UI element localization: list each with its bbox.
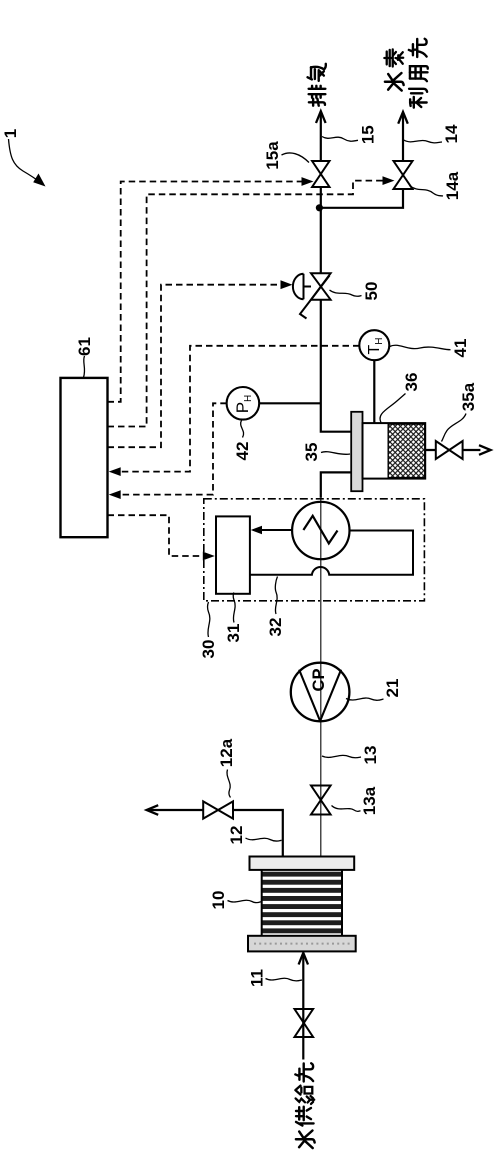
label 13: [361, 746, 380, 765]
leader 14a: [410, 186, 444, 197]
label 11: [248, 969, 267, 987]
wire temperature sensor probe: [373, 360, 375, 423]
arrow exhaust: [316, 111, 326, 123]
control valve 50 body: [311, 273, 331, 299]
svg-text:61: 61: [75, 337, 94, 356]
svg-text:41: 41: [451, 339, 470, 358]
temperature sensor 41: [359, 330, 389, 360]
controller 61: [61, 378, 108, 537]
leader 35a: [442, 414, 467, 442]
dashed enclosure 30: [204, 499, 425, 601]
leader 31: [233, 593, 235, 623]
wire tank drain line: [425, 449, 480, 451]
label 10: [209, 891, 228, 910]
wire main line through dryer and compressor (thin): [320, 498, 322, 857]
leader label 1: [9, 139, 42, 183]
leader 41: [390, 345, 451, 349]
valve 14a: [394, 161, 413, 189]
wire pressure sensor tap: [259, 402, 321, 404]
svg-text:35a: 35a: [459, 382, 478, 411]
signal controller to chiller 31: [108, 515, 204, 556]
leader 10: [228, 900, 262, 902]
signal arrowheads: [109, 176, 395, 560]
leader 14: [404, 140, 442, 143]
wire exhaust outlet line 15: [320, 113, 322, 162]
tank lid flange 35: [351, 412, 362, 491]
electrolysis stack 10 top plate: [250, 857, 355, 870]
svg-text:15: 15: [359, 125, 378, 144]
label 14: [442, 124, 461, 143]
svg-text:CP: CP: [310, 669, 328, 692]
leader 12a: [227, 770, 231, 798]
electrolysis stack 10 bottom plate: [248, 936, 356, 952]
svg-text:11: 11: [248, 969, 267, 987]
wire water supply line 11: [302, 955, 304, 1060]
arrow water inlet: [299, 953, 308, 965]
leader 15: [322, 137, 358, 142]
signal pressure sensor to controller: [119, 403, 227, 494]
label 31: [224, 624, 243, 643]
text water supply source (mizu kyuukyuu saki): [296, 1131, 315, 1149]
label 61: [75, 337, 94, 356]
arrow vent left: [147, 805, 159, 815]
label 15: [359, 125, 378, 144]
chiller unit 31: [216, 516, 250, 593]
wire tank lower port: [321, 472, 352, 497]
junction node: [316, 204, 323, 211]
svg-text:42: 42: [233, 442, 252, 461]
valve 15a: [312, 161, 329, 187]
svg-text:31: 31: [224, 624, 243, 643]
tank body 36: [363, 423, 426, 479]
leader 13a: [332, 806, 361, 812]
label 36: [402, 373, 421, 392]
svg-text:50: 50: [362, 282, 381, 301]
leader 21: [346, 698, 384, 700]
wire coolant feed with arrow into chiller 31: [253, 529, 292, 531]
control valve 50 actuator: [293, 274, 311, 299]
adsorbent crosshatch: [388, 424, 425, 478]
svg-text:12: 12: [227, 826, 246, 845]
label 30: [199, 640, 218, 659]
leader 11: [266, 978, 303, 981]
label 13a: [360, 786, 379, 815]
label 41: [451, 339, 470, 358]
label 35: [302, 443, 321, 462]
text exhaust (haiki): [309, 86, 326, 106]
label 14a: [443, 171, 462, 200]
svg-text:10: 10: [209, 891, 228, 910]
water supply valve: [295, 1009, 314, 1037]
signal controller to valve 15a: [108, 182, 303, 402]
label 42: [233, 442, 252, 461]
text use destination (riyousaki): [409, 89, 427, 108]
wire valve 50 to tank upper port: [321, 300, 352, 432]
svg-text:36: 36: [402, 373, 421, 392]
svg-text:35: 35: [302, 443, 321, 462]
arrow drain: [479, 445, 491, 455]
signal temperature sensor to controller: [119, 346, 360, 472]
label 21: [383, 679, 402, 698]
svg-text:13a: 13a: [360, 786, 379, 815]
leader 12: [246, 838, 282, 841]
label 12a: [217, 738, 236, 767]
leader 30: [208, 602, 210, 637]
wire valve15a to junction: [320, 187, 322, 208]
svg-text:32: 32: [266, 618, 285, 637]
label 50: [362, 282, 381, 301]
leader 13: [322, 755, 361, 758]
svg-text:15a: 15a: [263, 141, 282, 170]
leader 61: [84, 356, 85, 378]
leader 50: [330, 290, 362, 296]
wire junction to valve 50: [320, 208, 322, 274]
valve 13a: [311, 786, 331, 815]
text hydrogen (suiso): [385, 73, 404, 91]
signal controller to valve 14a: [108, 181, 384, 427]
svg-text:21: 21: [383, 679, 402, 698]
control valve 50 lever: [300, 276, 330, 319]
leader 36: [380, 394, 406, 423]
valve 35a: [436, 441, 463, 459]
compressor 21: [291, 663, 350, 722]
heat exchanger 32: [292, 502, 349, 559]
leader 15a: [282, 153, 310, 163]
label 1: [1, 129, 20, 138]
svg-text:12a: 12a: [217, 738, 236, 767]
wire branch to valve 14a: [319, 189, 403, 208]
svg-text:1: 1: [1, 129, 20, 138]
label 15a: [263, 141, 282, 170]
label 12: [227, 826, 246, 845]
label 32: [266, 618, 285, 637]
arrowhead of label-1 leader: [33, 174, 45, 187]
arrow hydrogen outlet: [398, 112, 408, 124]
svg-text:14: 14: [442, 124, 461, 143]
electrolysis stack 10 cells: [262, 872, 342, 934]
wire vent line 12: [148, 810, 283, 857]
svg-text:30: 30: [199, 640, 218, 659]
pressure sensor 42: [227, 387, 260, 420]
wire coolant loop return with hop over main line: [250, 531, 413, 575]
label 35a: [459, 382, 478, 411]
leader 42: [241, 420, 244, 437]
svg-text:14a: 14a: [443, 171, 462, 200]
signal controller to valve 50: [108, 285, 282, 448]
svg-text:13: 13: [361, 746, 380, 765]
valve 12a: [203, 801, 233, 818]
leader 32: [275, 577, 277, 615]
leader 35: [321, 452, 350, 455]
wire hydrogen outlet line 14: [402, 114, 404, 162]
